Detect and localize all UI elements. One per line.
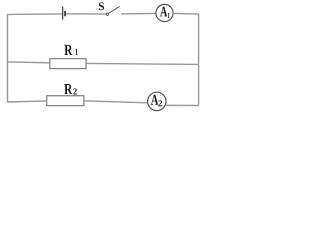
wire right rail vertical <box>198 14 200 106</box>
wire middle rail left segment <box>8 61 50 64</box>
battery cell <box>63 7 65 20</box>
wire top rail left segment <box>8 13 63 16</box>
ammeter A2 <box>148 92 166 110</box>
label S <box>99 2 104 10</box>
wire switch to ammeter A1 <box>121 12 156 15</box>
wire bottom rail left segment <box>8 101 47 102</box>
label R1 <box>64 45 77 55</box>
wire A1 to top-right corner <box>173 12 199 15</box>
wire A2 to bottom-right corner <box>166 104 199 106</box>
switch S <box>106 6 119 15</box>
wire battery to switch <box>66 13 106 15</box>
label R2 <box>64 84 77 95</box>
ammeter A1 <box>156 4 173 21</box>
wire left rail vertical <box>7 14 9 103</box>
resistor R2 <box>47 96 84 106</box>
wire middle rail right segment <box>86 63 199 64</box>
resistor R1 <box>50 59 86 69</box>
wire R2 to ammeter A2 <box>84 101 148 103</box>
